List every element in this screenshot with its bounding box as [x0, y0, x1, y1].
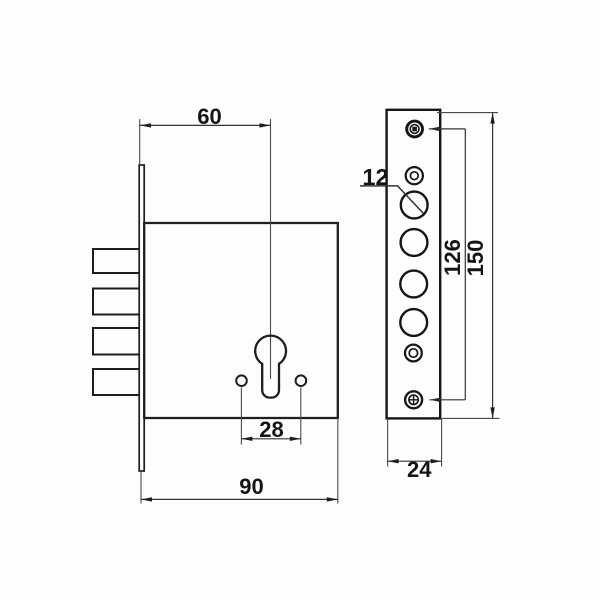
svg-text:60: 60: [197, 104, 221, 129]
svg-text:126: 126: [440, 239, 465, 276]
svg-text:24: 24: [407, 457, 432, 482]
svg-text:90: 90: [239, 474, 263, 499]
svg-text:28: 28: [259, 417, 283, 442]
svg-text:150: 150: [463, 240, 488, 277]
